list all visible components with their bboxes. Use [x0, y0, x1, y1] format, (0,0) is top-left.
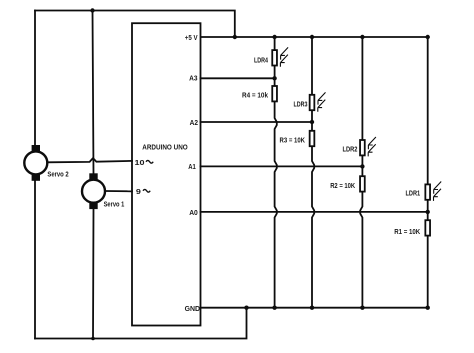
svg-text:LDR1: LDR1 [406, 188, 421, 197]
wire pin A1 [201, 165, 363, 167]
svg-text:ARDUINO UNO: ARDUINO UNO [142, 145, 188, 152]
node +5V/LDR4 [272, 35, 276, 39]
node GND/R3 [310, 306, 314, 310]
node junction +5V tap [233, 35, 237, 39]
svg-text:LDR2: LDR2 [343, 145, 358, 154]
photoresistor LDR4 [272, 47, 288, 66]
servo motor Servo 1 [82, 173, 105, 209]
wire pin A0 [201, 211, 428, 213]
svg-text:A0: A0 [189, 208, 198, 217]
wire servo2 left column top [34, 11, 36, 147]
node A2/LDR3/R3 [310, 120, 314, 124]
svg-text:Servo 1: Servo 1 [104, 199, 125, 208]
wire LDR1/R1 column [427, 37, 429, 308]
op box: Arduino UNO U1 [132, 23, 201, 325]
resistor R1 [425, 220, 430, 235]
svg-text:R1 = 10K: R1 = 10K [394, 227, 421, 236]
svg-text:+5 V: +5 V [185, 33, 198, 42]
wire +5V rail [201, 36, 428, 38]
svg-text:R2 = 10K: R2 = 10K [330, 181, 356, 190]
svg-text:A1: A1 [188, 162, 196, 171]
servo motor Servo 2 [24, 145, 47, 181]
wire pin A2 [201, 121, 313, 123]
wire pin 9 to Servo 1 [105, 190, 132, 192]
wire bottom ground rail [35, 308, 247, 339]
wire top rail [35, 11, 235, 38]
photoresistor LDR3 [310, 92, 326, 111]
resistor R2 [360, 176, 365, 191]
wire pin A3 [201, 77, 275, 79]
photoresistor LDR1 [425, 182, 441, 201]
resistor R3 [310, 131, 315, 146]
wire servo2 left column bottom [34, 180, 36, 339]
node A1/LDR2/R2 [360, 164, 364, 168]
resistor R4 [272, 86, 277, 101]
svg-text:R4 = 10k: R4 = 10k [242, 91, 268, 100]
svg-text:10: 10 [135, 158, 145, 167]
wire servo1 column top [93, 11, 94, 175]
node A3/LDR4/R4 [272, 76, 276, 80]
svg-text:9: 9 [136, 187, 141, 196]
svg-text:LDR4: LDR4 [254, 56, 268, 65]
wire LDR3/R3 column [312, 37, 314, 308]
node GND/bottom-rail [244, 306, 248, 310]
svg-text:R3 = 10K: R3 = 10K [280, 136, 306, 145]
node +5V/LDR2 [360, 35, 364, 39]
wire LDR2/R2 column [360, 37, 362, 308]
photoresistor LDR2 [360, 137, 376, 156]
wire LDR4/R4 column [275, 37, 277, 308]
node +5V/LDR3 [310, 35, 314, 39]
wire servo1 column bottom [92, 208, 95, 339]
node GND/R4 [272, 306, 276, 310]
svg-text:A2: A2 [190, 118, 198, 127]
node A0/LDR1/R1 [426, 210, 430, 214]
svg-text:GND: GND [185, 304, 201, 313]
node GND/R1 [426, 306, 430, 310]
node +5V/LDR1 corner [426, 35, 430, 39]
svg-text:A3: A3 [189, 74, 197, 83]
wire pin GND rail [201, 307, 428, 309]
node GND/R2 [360, 306, 364, 310]
node junction top servo1 tap [90, 8, 94, 12]
svg-text:Servo 2: Servo 2 [47, 170, 68, 179]
svg-text:LDR3: LDR3 [294, 100, 308, 109]
node bottom rail servo1 [91, 337, 95, 341]
wire pin 10 to Servo 2 (hop over servo1 column) [47, 158, 132, 162]
